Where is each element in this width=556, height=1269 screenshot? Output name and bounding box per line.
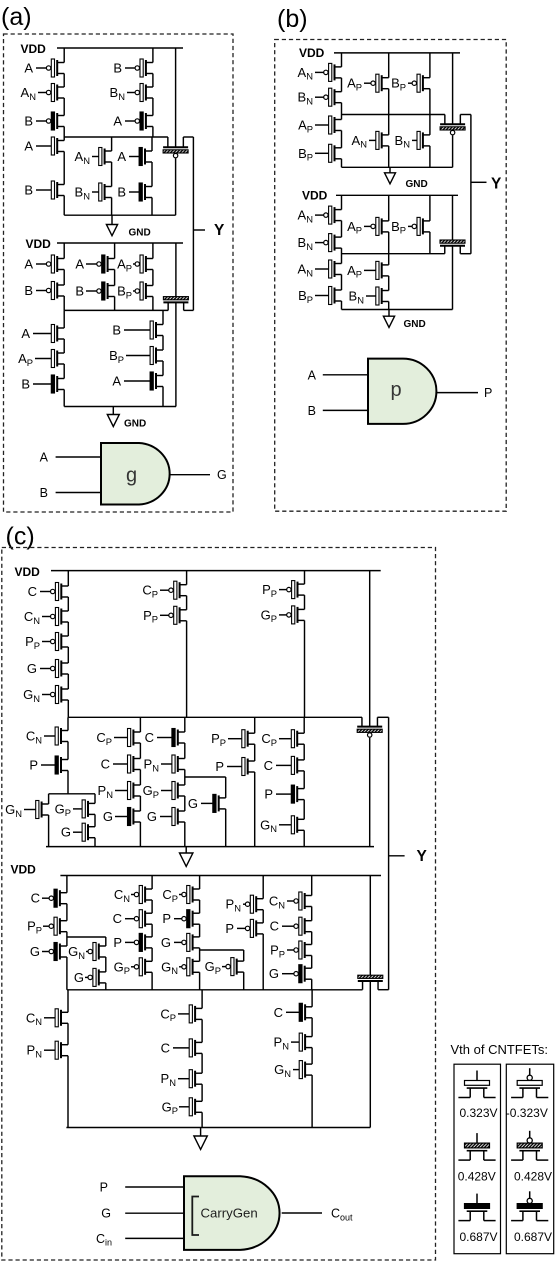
wire chain c3 chain4 — [262, 876, 264, 899]
transistor M48 P_P — [279, 581, 305, 599]
transistor M16 B — [86, 282, 115, 300]
transistor M92 C_P — [178, 1005, 202, 1023]
wire chain a-top mid branch — [111, 137, 113, 151]
svg-text:B: B — [75, 284, 84, 299]
wire chain c2 GN branch — [48, 794, 50, 804]
wire VDD rail a-top — [57, 47, 183, 49]
transistor M7 B_N — [127, 84, 153, 102]
wire chain c4 mid — [201, 990, 203, 1009]
wire bottom rail a-bottom — [64, 406, 176, 408]
wire keeper K2 drain lead — [175, 302, 177, 406]
transistor M61 G_P — [161, 782, 185, 800]
wire node n2 line — [67, 936, 106, 938]
wire node Y vertical a — [192, 137, 194, 310]
wire chain c3 GN-G branch — [105, 937, 107, 946]
transistor M26 B_N — [315, 88, 342, 106]
wire bottom rail a-top — [64, 214, 175, 216]
transistor M6 B — [125, 59, 153, 77]
legend symbol Vth 0.687V — [458, 1194, 495, 1221]
wire keeper K5 right foot — [377, 716, 388, 718]
wire mid rail a-bottom — [64, 309, 168, 311]
wire chain c2 chain5 — [303, 717, 305, 733]
svg-text:(c): (c) — [6, 523, 35, 551]
wire chain c3 tap branch — [243, 950, 245, 961]
wire keeper K6 gate lead — [369, 876, 371, 976]
keeper transistor K5 — [357, 717, 382, 737]
transistor M83 G_P — [222, 958, 244, 976]
wire chain c-top left — [67, 571, 69, 586]
ground GND b-top — [385, 167, 396, 184]
svg-text:(a): (a) — [1, 3, 32, 31]
legend symbol Vth 0.428V pmos — [511, 1131, 548, 1160]
svg-text:C: C — [113, 911, 122, 926]
svg-text:C: C — [145, 730, 154, 745]
transistor M19 A — [33, 325, 64, 343]
wire VDD rail a-bottom — [57, 242, 183, 244]
wire keeper K3 gate lead — [452, 135, 454, 167]
wire chain a-bot right lower — [162, 310, 164, 324]
legend symbol Vth -0.323V — [511, 1068, 548, 1097]
transistor M14 B — [36, 282, 64, 300]
transistor M44 G — [40, 660, 68, 678]
svg-text:g: g — [126, 465, 137, 487]
transistor M97 P_N — [291, 1033, 312, 1051]
wire chain b-top right — [429, 53, 431, 78]
wire chain c2 chain2 — [139, 717, 141, 732]
transistor M57 P_N — [115, 782, 140, 800]
svg-text:C: C — [161, 1040, 170, 1055]
wire mid rail b-bottom — [342, 253, 445, 255]
wire chain c3 chain5 — [311, 876, 313, 896]
transistor M73 G_N — [86, 943, 106, 961]
transistor M27 A_P — [315, 116, 342, 134]
transistor M86 C_N — [287, 892, 312, 910]
svg-text:P: P — [29, 758, 38, 773]
svg-text:VDD: VDD — [302, 189, 328, 203]
wire keeper K3 right foot — [460, 114, 471, 116]
transistor M30 A_N — [369, 131, 389, 149]
wire chain c-top mid — [186, 571, 188, 585]
wire chain c3 chain3 — [199, 876, 201, 890]
legend symbol Vth 0.687V pmos — [511, 1191, 548, 1220]
transistor M23 B_P — [126, 347, 163, 365]
transistor M84 P_N — [243, 895, 263, 913]
svg-text:B: B — [113, 61, 122, 76]
transistor M76 C — [125, 910, 152, 928]
transistor M82 G_N — [179, 958, 200, 976]
transistor M80 P — [174, 910, 200, 928]
svg-text:G: G — [147, 809, 157, 824]
svg-text:GND: GND — [404, 319, 426, 330]
svg-text:0.323V: 0.323V — [460, 1106, 498, 1120]
transistor M11 A — [129, 148, 152, 166]
wire chain b-top mid — [388, 53, 390, 78]
svg-text:P: P — [264, 787, 273, 802]
legend symbol Vth 0.428V — [458, 1133, 495, 1160]
wire bottom rail c-top — [46, 846, 374, 848]
transistor M1 A — [36, 59, 64, 77]
transistor M50 C_N — [44, 727, 68, 745]
transistor M18 B_P — [133, 282, 153, 300]
gate symbol U2 p — [368, 359, 436, 424]
svg-text:A: A — [24, 139, 33, 154]
transistor M32 B_N — [412, 131, 430, 149]
svg-text:C: C — [270, 919, 279, 934]
transistor M33 A_N — [315, 206, 342, 224]
transistor M39 B_N — [366, 287, 389, 305]
svg-text:B: B — [21, 377, 30, 392]
wire keeper K2 gate lead — [175, 243, 177, 297]
svg-text:C: C — [28, 584, 37, 599]
transistor M31 B_P — [408, 74, 430, 92]
wire keeper K4 right foot — [460, 253, 471, 255]
transistor M40 B_P — [408, 217, 430, 235]
transistor M95 G_P — [179, 1098, 202, 1116]
wire tap chain3 — [185, 776, 226, 778]
svg-text:p: p — [391, 379, 402, 401]
svg-text:A: A — [308, 368, 317, 382]
svg-text:GND: GND — [406, 179, 428, 190]
legend box left — [454, 1064, 501, 1254]
transistor M41 C — [40, 583, 68, 601]
transistor M74 G — [85, 968, 106, 986]
wire bottom rail c-bottom — [66, 1127, 370, 1129]
wire bottom rail b-bottom — [342, 309, 453, 311]
wire VDD rail b-top — [334, 52, 460, 54]
transistor M34 B_N — [315, 234, 342, 252]
wire VDD feed keeper c-top — [369, 571, 371, 727]
transistor M10 B_N — [92, 183, 112, 201]
wire input B line b — [323, 409, 368, 411]
transistor M43 P_P — [42, 633, 68, 651]
transistor M52 G_N — [24, 801, 49, 819]
svg-text:B: B — [24, 283, 33, 298]
transistor M20 A_P — [35, 350, 64, 368]
wire input B line — [56, 492, 101, 494]
svg-text:G: G — [27, 661, 37, 676]
wire chain c2 GP-G branch — [94, 794, 96, 804]
wire keeper K5 gate lead — [369, 738, 371, 847]
transistor M91 P_N — [44, 1041, 68, 1059]
wire tap chain3 c-bot — [200, 949, 244, 951]
transistor M28 B_P — [315, 144, 342, 162]
svg-text:B: B — [40, 486, 48, 500]
wire chain c3 chain1 upper — [66, 876, 68, 893]
wire mid rail c-top — [68, 716, 362, 718]
transistor M9 A_N — [92, 148, 112, 166]
wire chain c3 chain2 — [151, 876, 153, 890]
wire VDD feed keeper b-top — [452, 53, 454, 124]
wire bottom rail b-top — [342, 166, 453, 168]
svg-text:Y: Y — [417, 848, 428, 865]
transistor M49 G_P — [279, 606, 305, 624]
wire keeper K1 right foot — [183, 136, 193, 138]
transistor M53 G_P — [73, 800, 95, 818]
transistor M68 P — [276, 785, 304, 803]
wire chain c2 chain3 — [184, 717, 186, 732]
svg-text:B: B — [24, 183, 33, 198]
transistor M22 B — [124, 321, 163, 339]
svg-text:G: G — [269, 966, 279, 981]
svg-text:0.687V: 0.687V — [514, 1230, 552, 1244]
transistor M89 G — [282, 965, 312, 983]
transistor M2 A_N — [38, 84, 64, 102]
transistor M67 C — [276, 756, 304, 774]
transistor M4 A — [36, 137, 64, 155]
wire mid rail c-bottom — [67, 989, 363, 991]
wire mid rail b-top — [342, 114, 445, 116]
wire chain a-top left — [63, 48, 65, 63]
svg-text:A: A — [75, 257, 84, 272]
svg-text:0.428V: 0.428V — [514, 1170, 552, 1184]
svg-text:0.428V: 0.428V — [458, 1170, 496, 1184]
svg-text:-0.323V: -0.323V — [506, 1106, 548, 1120]
transistor M37 A_P — [364, 217, 389, 235]
transistor M54 G — [73, 823, 95, 841]
ground GND c-top — [180, 847, 193, 867]
wire output P line — [436, 392, 478, 394]
svg-text:G: G — [188, 796, 198, 811]
transistor M25 A_N — [315, 63, 342, 81]
transistor M8 A — [125, 112, 153, 130]
svg-text:VDD: VDD — [26, 237, 52, 251]
transistor M47 P_P — [160, 606, 187, 624]
transistor M55 C_P — [114, 729, 140, 747]
transistor M87 C — [282, 917, 312, 935]
wire chain c-top right — [304, 571, 306, 585]
svg-text:A: A — [21, 326, 30, 341]
svg-text:0.687V: 0.687V — [460, 1230, 498, 1244]
wire chain c2 chain4 — [254, 717, 256, 733]
transistor M59 C — [157, 729, 185, 747]
svg-text:G: G — [217, 468, 227, 482]
svg-text:G: G — [61, 825, 71, 840]
transistor M60 P_N — [161, 755, 185, 773]
wire keeper K6 right foot — [378, 989, 389, 991]
svg-text:VDD: VDD — [21, 42, 47, 56]
legend symbol Vth 0.323V — [458, 1071, 495, 1098]
wire keeper K1 gate lead — [175, 158, 177, 215]
wire output G line — [171, 474, 211, 476]
svg-text:Vth of CNTFETs:: Vth of CNTFETs: — [451, 1042, 549, 1057]
svg-text:B: B — [117, 185, 126, 200]
ground GND b-bottom — [383, 310, 394, 328]
svg-text:G: G — [101, 1207, 111, 1221]
transistor M79 C_P — [179, 886, 200, 904]
svg-text:VDD: VDD — [299, 46, 325, 60]
transistor M88 P_P — [287, 941, 312, 959]
svg-text:G: G — [30, 944, 40, 959]
svg-text:VDD: VDD — [11, 863, 37, 877]
transistor M65 P — [227, 758, 255, 776]
svg-text:(b): (b) — [277, 5, 308, 33]
wire node n1 line — [49, 793, 95, 795]
wire keeper K4 drain lead — [452, 246, 454, 310]
gate symbol U3 CarryGen — [184, 1176, 280, 1250]
wire chain a-top right branch — [151, 137, 153, 151]
svg-text:B: B — [24, 114, 33, 129]
wire input P line — [125, 1186, 184, 1188]
transistor M85 P — [237, 919, 263, 937]
transistor M46 C_P — [160, 581, 187, 599]
panel frame panel b — [275, 40, 507, 512]
transistor M69 G_N — [279, 816, 304, 834]
keeper transistor K1 — [163, 137, 188, 158]
svg-text:VDD: VDD — [15, 565, 41, 579]
wire keeper K4 gate lead — [452, 195, 454, 240]
wire chain c2 chain1 — [67, 717, 69, 730]
wire chain a-bot right upper — [152, 243, 154, 259]
keeper transistor K2 — [163, 297, 188, 311]
transistor M3 B — [36, 112, 64, 130]
svg-text:GND: GND — [129, 228, 151, 239]
transistor M66 C_P — [279, 730, 304, 748]
wire chain c4 right — [311, 990, 313, 1007]
svg-text:A: A — [117, 149, 126, 164]
transistor M98 G_N — [293, 1061, 312, 1079]
wire VDD rail c-top — [51, 570, 381, 572]
wire chain c4 left — [67, 990, 69, 1013]
transistor M56 C — [113, 755, 140, 773]
wire chain b-bot left — [341, 195, 343, 209]
transistor M15 A — [86, 255, 115, 273]
wire chain b-bot right — [429, 195, 431, 221]
wire VDD rail c-bottom — [60, 875, 381, 877]
svg-text:C: C — [101, 757, 110, 772]
svg-text:P: P — [100, 1181, 108, 1195]
wire input G line — [125, 1212, 184, 1214]
wire chain b-bot mid — [388, 195, 390, 221]
transistor M70 C — [42, 889, 67, 907]
transistor M75 C_N — [131, 886, 152, 904]
transistor M12 B — [129, 183, 152, 201]
transistor M81 G — [174, 933, 200, 951]
keeper transistor K3 — [440, 115, 465, 135]
svg-text:G: G — [103, 809, 113, 824]
wire keeper K6 drain lead — [369, 981, 371, 1128]
transistor M62 G — [160, 808, 185, 826]
transistor M45 G_N — [42, 686, 68, 704]
wire VDD feed keeper a-top — [175, 48, 177, 147]
transistor M51 P — [41, 756, 68, 774]
transistor M71 P_P — [43, 917, 67, 935]
svg-text:P: P — [484, 386, 492, 400]
svg-text:A: A — [24, 61, 33, 76]
gate symbol U1 g — [101, 443, 170, 505]
svg-text:G: G — [161, 935, 171, 950]
wire output Cout line — [282, 1212, 322, 1214]
transistor M94 P_N — [178, 1070, 202, 1088]
transistor M77 P — [125, 933, 152, 951]
panel frame panel c — [2, 548, 436, 1261]
wire Y tick a — [193, 229, 205, 231]
ground GND a-bottom — [107, 407, 119, 427]
wire chain a-bot mid upper — [114, 243, 116, 259]
svg-text:P: P — [225, 921, 234, 936]
transistor M96 C — [286, 1003, 312, 1021]
keeper transistor K4 — [440, 240, 465, 254]
wire chain c2 tap branch — [225, 777, 227, 798]
transistor M90 C_N — [44, 1009, 68, 1027]
wire node Y vertical b — [470, 115, 472, 254]
svg-text:A: A — [40, 451, 49, 465]
transistor M17 A_P — [133, 255, 153, 273]
svg-text:C: C — [264, 758, 273, 773]
transistor M35 A_N — [315, 260, 342, 278]
wire VDD rail b-bottom — [336, 194, 458, 196]
wire chain a-bot left lower — [63, 310, 65, 328]
svg-text:Y: Y — [214, 222, 225, 239]
transistor M24 A — [124, 372, 163, 390]
wire keeper K2 right foot — [184, 309, 194, 311]
panel frame panel a — [4, 34, 234, 512]
bracket CarryGen — [192, 1197, 199, 1236]
wire chain c3 G branch — [66, 937, 68, 946]
svg-text:C: C — [31, 891, 40, 906]
transistor M38 A_P — [364, 261, 389, 279]
wire chain a-bot left upper — [63, 243, 65, 259]
svg-text:A: A — [24, 257, 33, 272]
transistor M21 B — [33, 375, 64, 393]
wire input A line b — [323, 374, 368, 376]
transistor M72 G — [42, 943, 67, 961]
svg-text:C: C — [274, 1005, 283, 1020]
transistor M93 C — [173, 1039, 202, 1057]
svg-text:A: A — [113, 114, 122, 129]
wire Y tick c — [389, 855, 405, 857]
svg-text:G: G — [74, 970, 84, 985]
wire Y tick b — [471, 181, 487, 183]
transistor M5 B — [36, 181, 64, 199]
transistor M36 B_P — [315, 287, 342, 305]
transistor M64 P_P — [228, 730, 255, 748]
svg-text:B: B — [112, 323, 121, 338]
transistor M63 G — [201, 794, 226, 812]
transistor M58 G — [115, 808, 140, 826]
svg-text:A: A — [112, 374, 121, 389]
wire chain b-top left — [341, 53, 343, 67]
wire node Y vertical c — [388, 717, 390, 989]
svg-text:CarryGen: CarryGen — [201, 1206, 258, 1221]
transistor M13 A — [36, 255, 64, 273]
wire chain a-top right — [152, 48, 154, 63]
legend box right — [506, 1064, 553, 1254]
svg-text:P: P — [113, 935, 122, 950]
transistor M78 G_P — [131, 958, 152, 976]
transistor M42 C_N — [42, 608, 68, 626]
svg-text:P: P — [215, 759, 224, 774]
wire mid rail a-top — [64, 136, 168, 138]
wire input A line — [56, 456, 101, 458]
svg-text:GND: GND — [124, 419, 146, 430]
svg-text:P: P — [162, 911, 171, 926]
transistor M29 A_P — [364, 74, 389, 92]
svg-text:B: B — [308, 404, 316, 418]
keeper transistor K6 — [358, 975, 383, 990]
ground GND c-bottom — [194, 1128, 207, 1150]
wire input Cin line — [125, 1237, 184, 1239]
ground GND a-top — [106, 215, 117, 236]
svg-text:Y: Y — [491, 176, 502, 193]
